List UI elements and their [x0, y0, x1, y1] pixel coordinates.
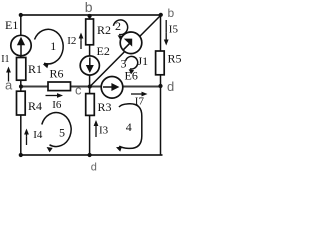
svg-text:5: 5	[59, 126, 65, 140]
svg-text:d: d	[91, 162, 97, 174]
svg-text:I6: I6	[52, 99, 62, 111]
svg-text:E1: E1	[5, 18, 18, 32]
svg-text:c: c	[75, 83, 82, 98]
svg-text:J1: J1	[138, 54, 149, 68]
svg-text:R2: R2	[97, 23, 111, 37]
svg-text:b: b	[85, 0, 93, 15]
svg-text:3: 3	[121, 57, 127, 71]
svg-text:E2: E2	[97, 44, 110, 58]
svg-text:R4: R4	[28, 99, 42, 113]
svg-text:b: b	[168, 6, 175, 20]
svg-text:E6: E6	[125, 69, 138, 83]
svg-text:2: 2	[115, 19, 121, 33]
svg-text:I1: I1	[1, 54, 9, 65]
svg-text:R3: R3	[98, 100, 112, 114]
svg-text:I2: I2	[67, 35, 76, 47]
svg-text:I3: I3	[99, 125, 109, 137]
svg-text:I4: I4	[33, 129, 43, 141]
svg-text:R6: R6	[50, 67, 64, 81]
svg-text:R5: R5	[168, 52, 182, 66]
svg-text:I7: I7	[135, 96, 145, 108]
svg-text:a: a	[5, 78, 13, 93]
svg-text:R1: R1	[28, 62, 42, 76]
svg-text:d: d	[167, 79, 174, 94]
svg-text:1: 1	[50, 39, 56, 53]
svg-text:4: 4	[126, 120, 132, 134]
svg-text:I5: I5	[169, 24, 179, 36]
